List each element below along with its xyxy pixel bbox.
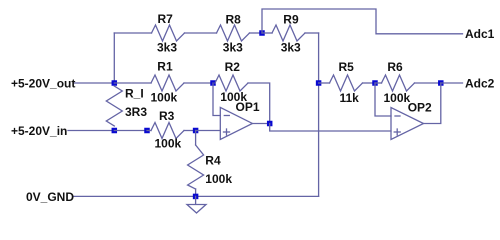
- resistor R_I: [106, 86, 122, 126]
- junction R3/R4/OP1 plus node: [193, 128, 199, 134]
- svg-text:100k: 100k: [205, 172, 232, 186]
- svg-text:R5: R5: [339, 60, 355, 74]
- resistor R2: [215, 75, 248, 91]
- resistor R3: [151, 123, 184, 139]
- wire OP1 inverting input: [213, 83, 220, 116]
- resistor R4: [188, 145, 204, 189]
- svg-text:R6: R6: [387, 60, 403, 74]
- wire R5 right lead: [363, 82, 376, 84]
- wire R8 right lead: [250, 32, 263, 34]
- svg-text:R_I: R_I: [125, 86, 144, 100]
- svg-text:R7: R7: [158, 12, 174, 26]
- wire R9 left lead: [262, 32, 272, 34]
- svg-text:100k: 100k: [151, 91, 178, 105]
- svg-text:+5-20V_in: +5-20V_in: [11, 124, 67, 138]
- resistor R5: [330, 75, 363, 91]
- svg-text:11k: 11k: [340, 91, 360, 105]
- junction R4-ground: [193, 194, 199, 200]
- wire 0V_GND: [74, 195, 319, 197]
- op-amp OP1: [220, 107, 252, 139]
- wire OP2 output to Adc2 node: [424, 83, 441, 124]
- junction OP1 output node: [267, 121, 273, 127]
- svg-text:R4: R4: [205, 153, 221, 167]
- svg-text:OP1: OP1: [236, 100, 260, 114]
- resistor R9: [272, 25, 305, 41]
- op-amp OP2: [391, 108, 424, 140]
- svg-text:R1: R1: [157, 59, 173, 73]
- resistor R8: [217, 25, 250, 41]
- wire R1 left lead: [114, 82, 151, 84]
- wire R3 left lead: [147, 130, 151, 132]
- wire R7 left lead: [114, 32, 151, 34]
- svg-text:R9: R9: [283, 12, 299, 26]
- svg-text:3R3: 3R3: [125, 105, 147, 119]
- junction node out/R_I/R1: [112, 80, 118, 86]
- wire R6 right lead: [415, 82, 441, 84]
- junction R6/OP2 output node: [438, 80, 444, 86]
- svg-text:OP2: OP2: [408, 100, 432, 114]
- wire R9 right lead: [305, 32, 319, 34]
- wire to OP1 plus input: [196, 130, 221, 132]
- junction R3 left: [144, 128, 150, 134]
- junction R5-R6 / OP2 inverting node: [372, 80, 378, 86]
- wire in row to R3: [114, 130, 147, 132]
- svg-text:Adc1: Adc1: [465, 27, 495, 41]
- wire +5-20V_in lead: [68, 130, 114, 132]
- svg-text:3k3: 3k3: [281, 40, 301, 54]
- wire OP1 output to OP2 plus: [270, 124, 391, 132]
- wire R2 to OP1 output: [248, 83, 270, 124]
- wire Adc1 bypass: [262, 9, 463, 34]
- junction R8-R9 Adc1 node: [259, 30, 265, 36]
- resistor R1: [151, 75, 184, 91]
- junction node in/R_I/R3: [112, 128, 118, 134]
- wire Adc2 lead: [441, 82, 463, 84]
- wire R3 right lead: [184, 130, 196, 132]
- wire R4 bottom lead: [195, 189, 197, 196]
- svg-text:100k: 100k: [155, 137, 182, 151]
- svg-text:Adc2: Adc2: [465, 77, 495, 91]
- wire node A vertical: [113, 33, 115, 83]
- svg-text:3k3: 3k3: [223, 40, 243, 54]
- junction R1-R2 / OP1 inverting node: [210, 80, 216, 86]
- junction ground/R5 node: [316, 80, 322, 86]
- wire R6 left lead: [375, 82, 382, 84]
- wire OP1 output: [252, 123, 269, 125]
- wire OP2 inverting input: [375, 83, 391, 116]
- wire ground net vertical: [318, 33, 320, 196]
- svg-text:+5-20V_out: +5-20V_out: [11, 77, 75, 91]
- svg-text:0V_GND: 0V_GND: [26, 190, 74, 204]
- resistor R6: [382, 75, 415, 91]
- svg-text:R3: R3: [159, 109, 175, 123]
- svg-text:R8: R8: [226, 12, 242, 26]
- resistor R7: [152, 25, 185, 41]
- svg-text:100k: 100k: [384, 91, 411, 105]
- svg-text:3k3: 3k3: [157, 40, 177, 54]
- wire R7-R8: [185, 32, 217, 34]
- wire R4 top lead: [195, 131, 197, 146]
- ground: [187, 196, 206, 213]
- wire R1 right lead: [184, 82, 213, 84]
- wire +5-20V_out lead: [74, 82, 114, 84]
- wire R5 left lead: [319, 82, 330, 84]
- svg-text:R2: R2: [225, 60, 241, 74]
